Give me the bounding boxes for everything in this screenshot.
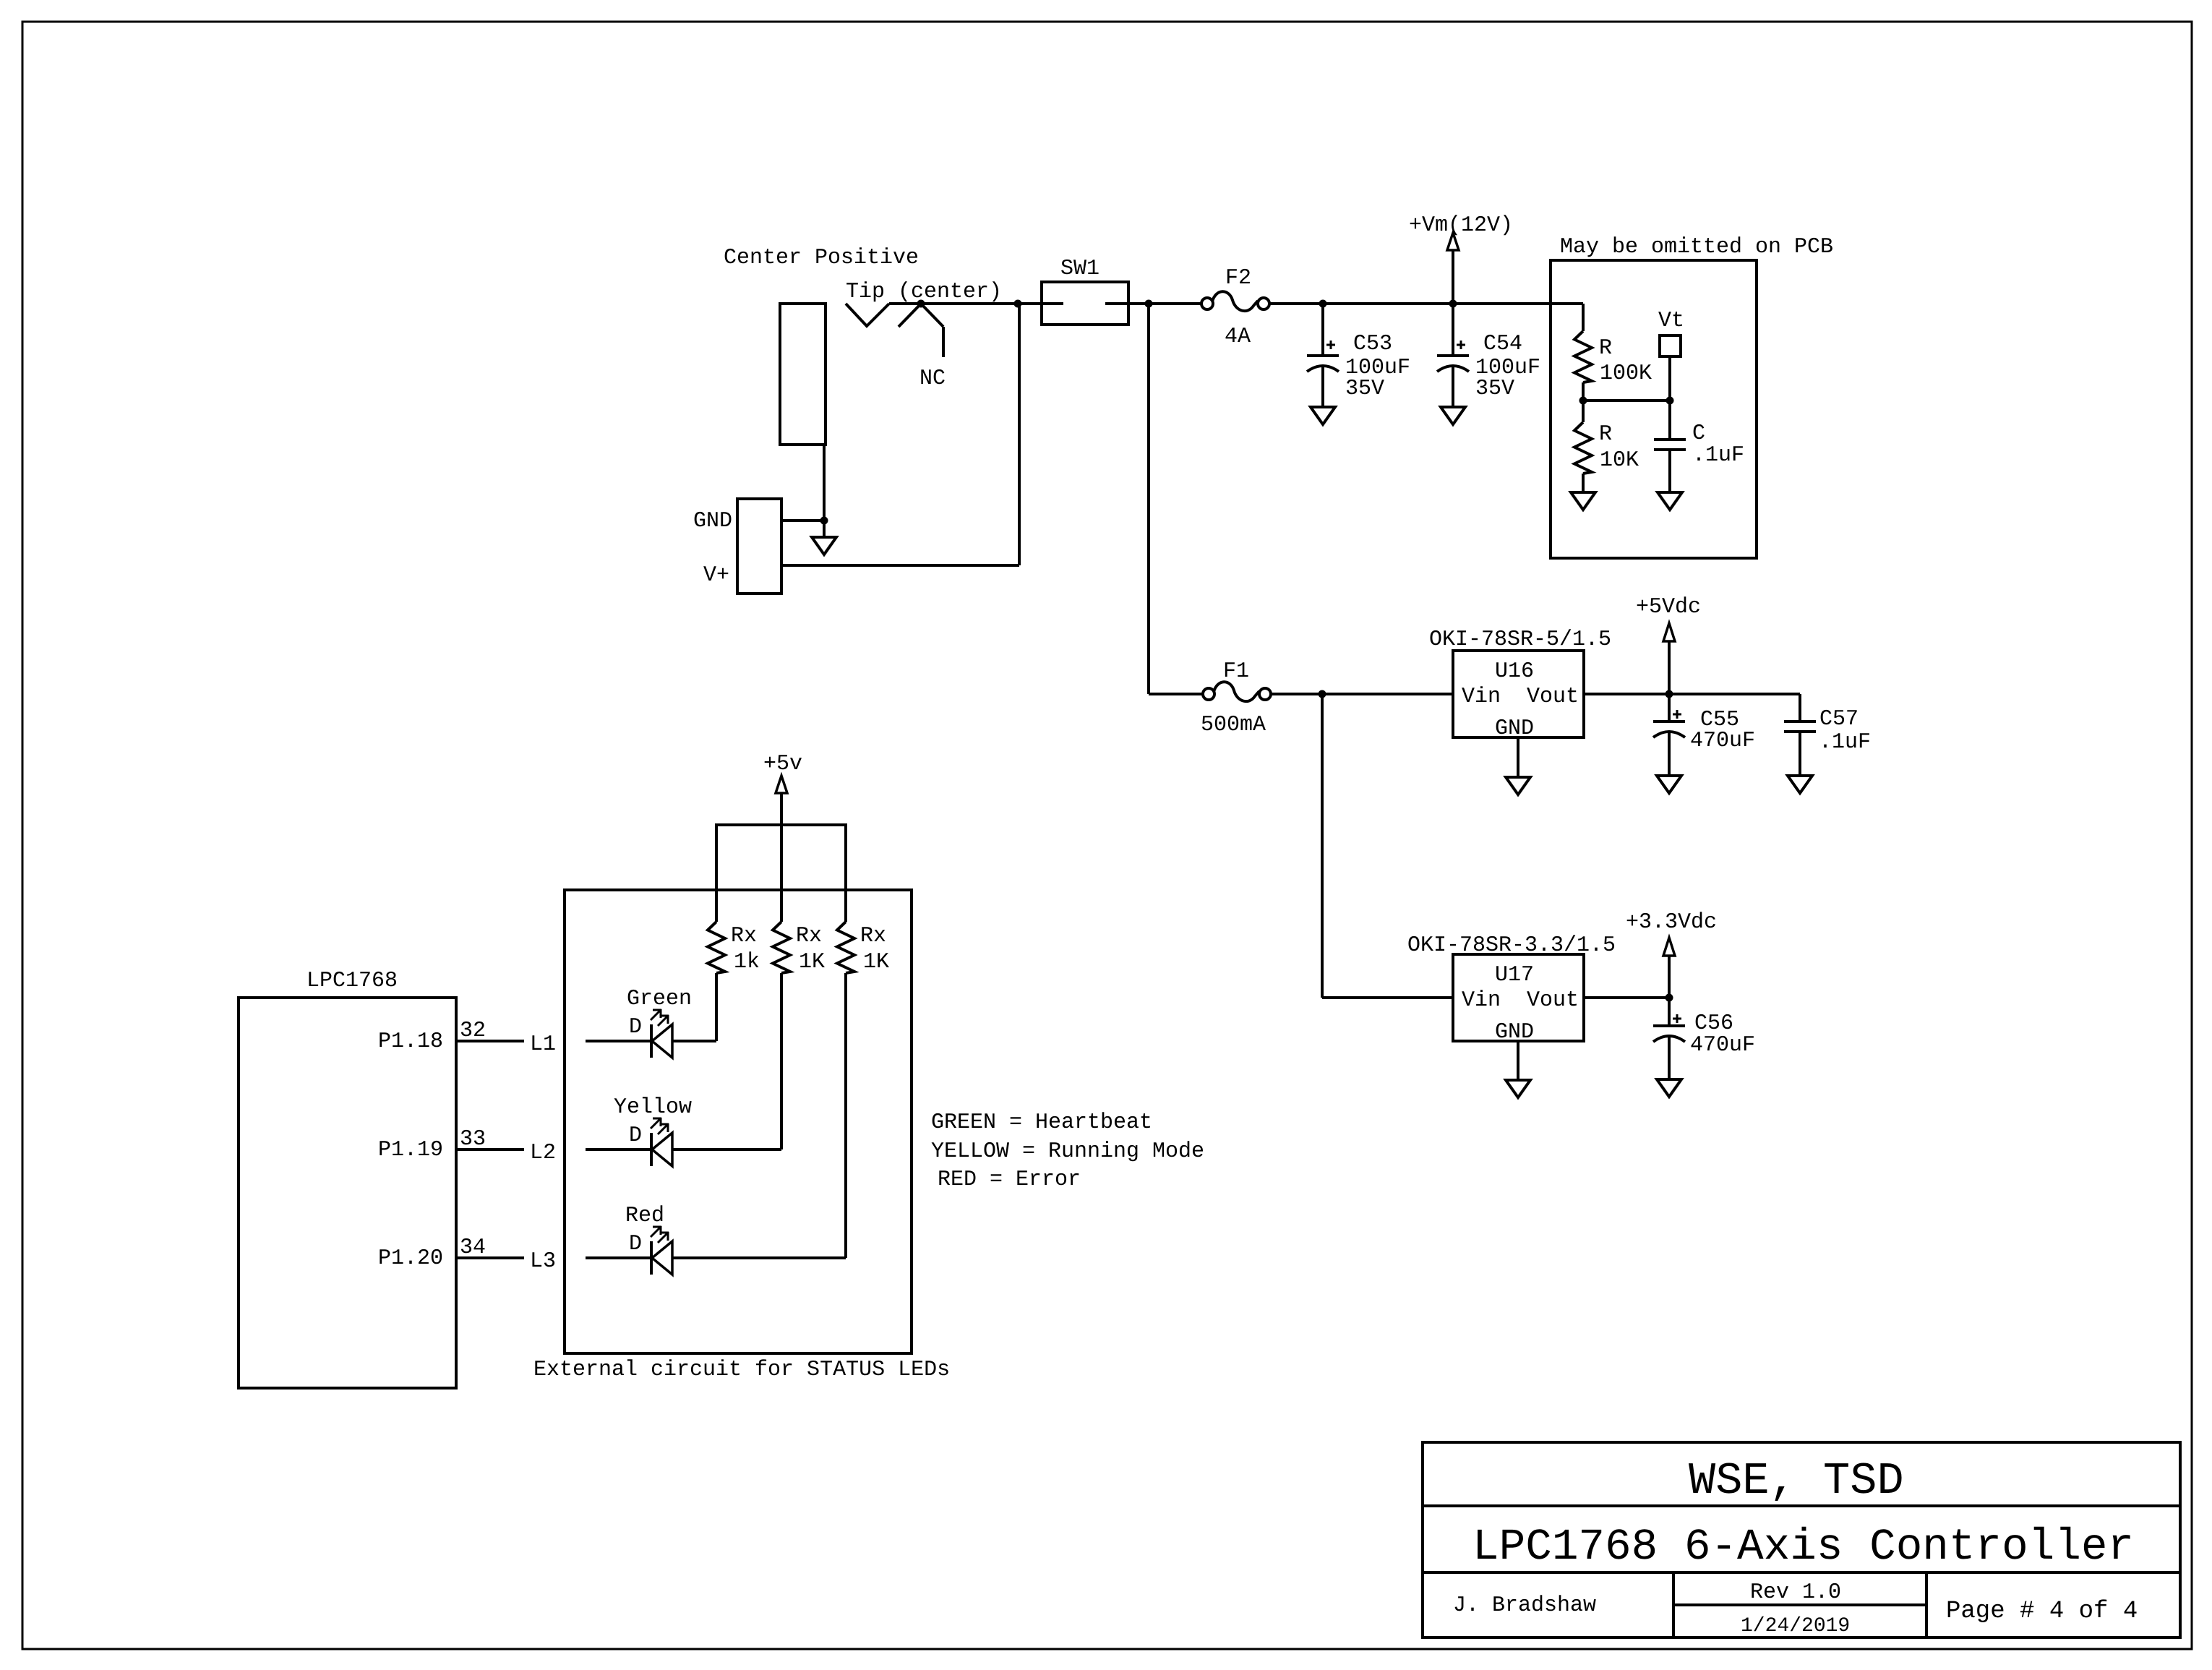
label C53: [1353, 332, 1392, 356]
title block vertical divider right: [1925, 1572, 1928, 1637]
label NC: [919, 367, 946, 391]
label Yellow: [614, 1095, 692, 1120]
svg-text:.1uF: .1uF: [1692, 443, 1744, 468]
label May be omitted on PCB: [1560, 235, 1833, 260]
label U17: [1495, 963, 1534, 988]
svg-text:J. Bradshaw: J. Bradshaw: [1453, 1593, 1596, 1618]
wire R10K to ground: [1582, 474, 1585, 492]
svg-text:P1.19: P1.19: [378, 1138, 443, 1162]
label D (Red): [629, 1232, 642, 1256]
junction tip node: [917, 300, 925, 308]
wire to U17 Vin: [1322, 996, 1453, 999]
power +Vm(12V): [1409, 213, 1513, 304]
svg-text:U17: U17: [1495, 963, 1534, 988]
label Vt: [1658, 309, 1684, 333]
pin label P1.19: [378, 1138, 443, 1162]
svg-text:100K: 100K: [1600, 361, 1652, 386]
pin label Vin (U17): [1462, 988, 1501, 1013]
regulator U17 body: [1453, 954, 1584, 1041]
svg-text:Red: Red: [625, 1204, 664, 1228]
label Rev 1.0: [1750, 1580, 1841, 1605]
wire main riser to F1 row: [1147, 304, 1150, 694]
svg-text:1k: 1k: [734, 950, 760, 975]
wire divider node to Vt/C node: [1583, 399, 1670, 402]
capacitor C56 lead: [1668, 998, 1671, 1026]
wire LED to resistor drop: [672, 1148, 781, 1151]
LED D (Yellow): [651, 1118, 672, 1166]
label 100uF: [1345, 356, 1410, 380]
wire riser to U17 row: [1321, 694, 1324, 998]
ground (C53): [1311, 407, 1335, 424]
label 470uF (C56): [1690, 1033, 1755, 1058]
svg-text:Rx: Rx: [796, 924, 822, 949]
label OKI-78SR-5/1.5: [1429, 628, 1611, 652]
svg-text:+Vm(12V): +Vm(12V): [1409, 213, 1513, 238]
svg-text:Vin: Vin: [1462, 685, 1501, 709]
pin number 34: [460, 1236, 486, 1260]
svg-text:.1uF: .1uF: [1819, 730, 1871, 755]
title WSE, TSD: [1689, 1455, 1904, 1507]
ground (C54): [1441, 407, 1465, 424]
svg-text:Green: Green: [627, 987, 692, 1011]
pin label P1.18: [378, 1029, 443, 1054]
label C54: [1483, 332, 1522, 356]
title block rev/date divider: [1673, 1603, 1926, 1606]
svg-text:1K: 1K: [863, 950, 889, 975]
svg-text:NC: NC: [919, 367, 946, 391]
label 1/24/2019: [1741, 1615, 1850, 1637]
svg-text:470uF: 470uF: [1690, 1033, 1755, 1058]
svg-text:OKI-78SR-5/1.5: OKI-78SR-5/1.5: [1429, 628, 1611, 652]
label 1k (1): [734, 950, 760, 975]
svg-text:C56: C56: [1694, 1011, 1733, 1036]
svg-text:D: D: [629, 1015, 642, 1040]
C55 polarity +: [1673, 710, 1681, 719]
resistor R 100K: [1574, 331, 1592, 382]
junction Vt/C node: [1666, 397, 1674, 405]
svg-text:Tip (center): Tip (center): [846, 280, 1002, 304]
svg-text:500mA: 500mA: [1201, 713, 1266, 737]
svg-text:35V: 35V: [1345, 377, 1384, 401]
capacitor C54 plates: [1437, 356, 1469, 372]
junction GND node: [820, 517, 828, 525]
title block outer: [1423, 1442, 2180, 1637]
wire resistor to LED row: [844, 973, 847, 1258]
capacitor C56 lower lead: [1668, 1037, 1671, 1079]
title block divider row1/row2: [1423, 1504, 2180, 1507]
svg-text:C57: C57: [1819, 707, 1859, 732]
switch SW1 contact stubs: [1042, 302, 1128, 305]
wire V+ riser to tip net: [1018, 304, 1021, 565]
wire riser to F1: [1149, 693, 1204, 695]
capacitor C lead: [1668, 401, 1671, 440]
capacitor C57 lower lead: [1799, 732, 1801, 776]
svg-text:10K: 10K: [1600, 448, 1639, 473]
connector J1 pin block (GND / V+): [737, 499, 781, 594]
wire L3 to LED: [586, 1256, 651, 1259]
ground (C56): [1657, 1079, 1681, 1097]
ground (C): [1658, 492, 1682, 510]
junction C53 tap: [1319, 300, 1327, 308]
label Red: [625, 1204, 664, 1228]
wire jack barrel to GND node: [823, 445, 826, 521]
wire tip to SW1: [889, 302, 1042, 305]
label Rx (2): [796, 924, 822, 949]
junction +3.3V node: [1666, 994, 1673, 1002]
svg-text:SW1: SW1: [1060, 257, 1099, 281]
wire F1 to U16 Vin: [1271, 693, 1453, 695]
capacitor C55 lower lead: [1668, 732, 1671, 776]
svg-text:35V: 35V: [1475, 377, 1514, 401]
label 10K: [1600, 448, 1639, 473]
junction +5V node: [1666, 690, 1673, 698]
svg-text:U16: U16: [1495, 659, 1534, 684]
label RED = Error: [938, 1168, 1081, 1192]
tip contact (check symbol): [846, 304, 889, 326]
pin label GND (U17): [1495, 1020, 1534, 1045]
svg-text:32: 32: [460, 1019, 486, 1043]
junction U17 feed tap: [1319, 690, 1326, 698]
fuse F1: [1203, 682, 1271, 701]
capacitor C55 plates: [1653, 721, 1685, 737]
svg-text:Center Positive: Center Positive: [724, 246, 919, 270]
wire U16 Vout to +5V rail: [1584, 693, 1800, 695]
label R (100K): [1599, 336, 1612, 361]
svg-text:Vout: Vout: [1527, 685, 1579, 709]
label Page # 4 of 4: [1946, 1598, 2138, 1625]
svg-text:R: R: [1599, 422, 1612, 447]
label GND: [693, 509, 732, 534]
wire F2 to +Vm rail: [1269, 302, 1583, 305]
pin label P1.20: [378, 1246, 443, 1271]
svg-text:C53: C53: [1353, 332, 1392, 356]
switch SW1 body: [1042, 282, 1128, 325]
resistor Rx column 3: [837, 922, 854, 973]
wire LED to resistor drop: [672, 1256, 846, 1259]
svg-text:External circuit for STATUS LE: External circuit for STATUS LEDs: [533, 1358, 950, 1382]
power +5Vdc: [1636, 595, 1701, 694]
wire V+ pin: [781, 564, 1019, 567]
ground (U16): [1506, 777, 1530, 795]
svg-text:+5Vdc: +5Vdc: [1636, 595, 1701, 620]
title block vertical divider left: [1672, 1572, 1675, 1637]
junction main node after SW1: [1145, 300, 1153, 308]
svg-text:P1.20: P1.20: [378, 1246, 443, 1271]
pin number 33: [460, 1127, 486, 1152]
pin number 32: [460, 1019, 486, 1043]
wire P1.20 to L3: [456, 1256, 524, 1259]
label F2: [1225, 266, 1251, 291]
svg-text:Vin: Vin: [1462, 988, 1501, 1013]
C53 polarity +: [1326, 341, 1335, 349]
label 35V: [1475, 377, 1514, 401]
svg-text:+3.3Vdc: +3.3Vdc: [1626, 910, 1717, 935]
svg-text:D: D: [629, 1232, 642, 1256]
label SW1: [1060, 257, 1099, 281]
C56 polarity +: [1673, 1014, 1681, 1023]
label Rx (3): [860, 924, 886, 949]
label C55: [1700, 708, 1739, 732]
svg-text:Rev 1.0: Rev 1.0: [1750, 1580, 1841, 1605]
svg-text:WSE, TSD: WSE, TSD: [1689, 1455, 1904, 1507]
svg-text:Rx: Rx: [860, 924, 886, 949]
capacitor C53 lead: [1321, 304, 1324, 356]
label C56: [1694, 1011, 1733, 1036]
pin label GND (U16): [1495, 716, 1534, 741]
label J. Bradshaw: [1453, 1593, 1596, 1618]
svg-text:F2: F2: [1225, 266, 1251, 291]
label 100K: [1600, 361, 1652, 386]
svg-text:D: D: [629, 1123, 642, 1148]
label 500mA: [1201, 713, 1266, 737]
wire U16 GND stub: [1517, 737, 1519, 777]
ground (R10K): [1571, 492, 1595, 510]
resistor Rx column 2: [773, 922, 790, 973]
capacitor C57 plates: [1784, 721, 1816, 732]
label 35V: [1345, 377, 1384, 401]
capacitor C54 lower lead: [1452, 367, 1454, 407]
label L3: [530, 1249, 556, 1274]
label Green: [627, 987, 692, 1011]
wire U17 Vout to +3.3V node: [1584, 996, 1669, 999]
label GREEN = Heartbeat: [931, 1110, 1152, 1135]
wire rail corner into divider: [1582, 304, 1585, 331]
optional-circuit box: [1551, 260, 1757, 558]
svg-text:L3: L3: [530, 1249, 556, 1274]
capacitor C53 lower lead: [1321, 367, 1324, 407]
label .1uF: [1692, 443, 1744, 468]
svg-text:R: R: [1599, 336, 1612, 361]
svg-text:Rx: Rx: [731, 924, 757, 949]
fuse F2: [1201, 291, 1269, 311]
svg-text:GND: GND: [693, 509, 732, 534]
junction divider node: [1579, 397, 1587, 405]
wire R100K to divider node: [1582, 382, 1585, 401]
svg-text:L1: L1: [530, 1032, 556, 1057]
label Rx (1): [731, 924, 757, 949]
wire +5v bus: [716, 825, 846, 922]
title LPC1768 6-Axis Controller: [1472, 1523, 2134, 1572]
power +3.3Vdc: [1626, 910, 1717, 998]
svg-text:LPC1768: LPC1768: [306, 969, 398, 993]
wire L2 to LED: [586, 1148, 651, 1151]
external LED circuit box: [565, 890, 912, 1353]
svg-text:LPC1768 6-Axis Controller: LPC1768 6-Axis Controller: [1472, 1523, 2134, 1572]
junction C54 / +Vm tap: [1449, 300, 1457, 308]
svg-text:C: C: [1692, 421, 1705, 446]
capacitor C57 lead: [1799, 694, 1801, 721]
ground (jack GND): [812, 521, 836, 554]
label 1K (2): [799, 950, 825, 975]
capacitor C lower lead: [1668, 450, 1671, 492]
label D (Green): [629, 1015, 642, 1040]
pin label Vout (U16): [1527, 685, 1579, 709]
svg-text:34: 34: [460, 1236, 486, 1260]
wire Vt to node: [1668, 356, 1671, 401]
power +5v: [763, 752, 802, 922]
wire L1 to LED: [586, 1040, 651, 1042]
wire GND pin: [781, 519, 824, 522]
regulator U16 body: [1453, 651, 1584, 737]
svg-text:RED = Error: RED = Error: [938, 1168, 1081, 1192]
label 470uF (C55): [1690, 729, 1755, 753]
label 4A: [1225, 325, 1251, 349]
title block divider row2/row3: [1423, 1571, 2180, 1574]
svg-text:V+: V+: [703, 563, 729, 588]
svg-text:1K: 1K: [799, 950, 825, 975]
svg-text:470uF: 470uF: [1690, 729, 1755, 753]
label C57: [1819, 707, 1859, 732]
label YELLOW = Running Mode: [931, 1139, 1204, 1164]
svg-text:+5v: +5v: [763, 752, 802, 776]
label OKI-78SR-3.3/1.5: [1407, 933, 1616, 958]
label .1uF (C57): [1819, 730, 1871, 755]
label L1: [530, 1032, 556, 1057]
label D (Yellow): [629, 1123, 642, 1148]
connector J1 barrel (DC jack body): [780, 304, 826, 445]
label C: [1692, 421, 1705, 446]
NC contact diagonals: [899, 304, 943, 357]
wire LED to resistor drop: [672, 1040, 716, 1042]
junction V+ riser node: [1014, 300, 1022, 308]
svg-text:F1: F1: [1223, 659, 1249, 684]
capacitor C56 plates: [1653, 1026, 1685, 1042]
svg-text:Page # 4 of 4: Page # 4 of 4: [1946, 1598, 2138, 1625]
capacitor C55 lead: [1668, 694, 1671, 721]
svg-text:C54: C54: [1483, 332, 1522, 356]
label LPC1768: [306, 969, 398, 993]
LED D (Green): [651, 1009, 672, 1058]
ground (U17): [1506, 1080, 1530, 1097]
svg-text:GND: GND: [1495, 716, 1534, 741]
label External circuit for STATUS LEDs: [533, 1358, 950, 1382]
label Tip (center): [846, 280, 1002, 304]
resistor R 10K: [1574, 422, 1592, 474]
label 100uF: [1475, 356, 1540, 380]
wire U17 GND stub: [1517, 1041, 1519, 1080]
capacitor C plates: [1654, 440, 1686, 450]
svg-text:33: 33: [460, 1127, 486, 1152]
ground (C55): [1657, 776, 1681, 793]
pin label Vout (U17): [1527, 988, 1579, 1013]
svg-text:GND: GND: [1495, 1020, 1534, 1045]
svg-text:Vout: Vout: [1527, 988, 1579, 1013]
svg-text:Vt: Vt: [1658, 309, 1684, 333]
svg-text:P1.18: P1.18: [378, 1029, 443, 1054]
wire P1.18 to L1: [456, 1040, 524, 1042]
svg-text:Yellow: Yellow: [614, 1095, 692, 1120]
label U16: [1495, 659, 1534, 684]
svg-text:L2: L2: [530, 1141, 556, 1165]
LED D (Red): [651, 1226, 672, 1275]
svg-text:4A: 4A: [1225, 325, 1251, 349]
label 1K (3): [863, 950, 889, 975]
label Center Positive: [724, 246, 919, 270]
svg-text:1/24/2019: 1/24/2019: [1741, 1615, 1850, 1637]
ground (C57): [1788, 776, 1812, 793]
label R (10K): [1599, 422, 1612, 447]
C54 polarity +: [1457, 341, 1465, 349]
svg-text:GREEN = Heartbeat: GREEN = Heartbeat: [931, 1110, 1152, 1135]
label V+: [703, 563, 729, 588]
test point Vt square: [1660, 335, 1681, 356]
label L2: [530, 1141, 556, 1165]
resistor R 10K lead: [1582, 401, 1585, 422]
svg-text:May be omitted on PCB: May be omitted on PCB: [1560, 235, 1833, 260]
IC LPC1768 body: [239, 998, 456, 1388]
wire SW1 to F2: [1128, 302, 1202, 305]
wire resistor to LED row: [780, 973, 783, 1149]
capacitor C53 plates: [1307, 356, 1339, 372]
resistor Rx column 1: [708, 922, 725, 973]
capacitor C54 lead: [1452, 304, 1454, 356]
wire P1.19 to L2: [456, 1148, 524, 1151]
wire resistor to LED row: [715, 973, 718, 1041]
svg-text:YELLOW = Running Mode: YELLOW = Running Mode: [931, 1139, 1204, 1164]
label F1: [1223, 659, 1249, 684]
pin label Vin (U16): [1462, 685, 1501, 709]
